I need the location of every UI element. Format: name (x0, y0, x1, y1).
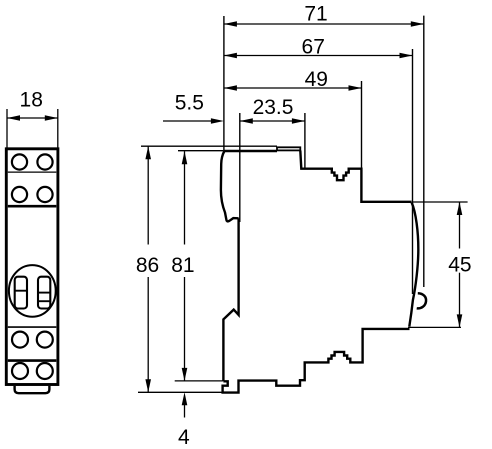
side view extension line front x224 (223, 16, 225, 150)
dim 81 extension bottom line (175, 380, 223, 382)
dim 45 extension top line (413, 201, 468, 203)
dim 5.5 leader and arrow (163, 118, 224, 124)
dim 49 line and arrows (224, 85, 362, 91)
DIN clip release loop (417, 293, 426, 308)
dim 81 line and arrows (182, 151, 188, 381)
terminal circle row1 right (37, 154, 52, 169)
rocker switch bezel circle (9, 265, 56, 317)
rocker switch left (15, 277, 27, 309)
dim 45 extension bottom line (408, 326, 461, 328)
dim 23.5 label (253, 96, 294, 119)
dim 18 label (20, 89, 43, 112)
side view left edge with DIN rail recess (223, 218, 238, 381)
terminal circle row2 right (37, 187, 52, 202)
dim 45 label (448, 254, 471, 277)
svg-text:81: 81 (171, 254, 194, 277)
side view top right profile with castellated notch (300, 150, 411, 201)
terminal circle row3 left (12, 332, 28, 348)
dim 81 extension top line (178, 150, 224, 152)
dim 81 label (171, 254, 194, 277)
front view divider thin 1 (8, 171, 57, 173)
svg-text:49: 49 (305, 68, 328, 91)
side view front clip (221, 151, 239, 221)
svg-text:45: 45 (448, 254, 471, 277)
side view extension line x412.5 for 67 (412, 49, 414, 294)
dim 4 arrow and stub (182, 392, 188, 417)
dim 23.5 line and arrows (240, 118, 305, 124)
dim 71 line and arrows (224, 21, 424, 27)
dim 45 line and arrows (457, 202, 463, 327)
dim 18 line and arrows (7, 115, 58, 121)
side view extension line x423.8 for 71 (423, 16, 425, 287)
svg-text:4: 4 (178, 426, 190, 449)
terminal circle row1 left (12, 154, 27, 169)
dim 49 label (305, 68, 328, 91)
dim 67 label (302, 35, 325, 58)
front view bottom tab (15, 386, 50, 393)
dim 86 extension top line (141, 145, 277, 147)
terminal circle row4 right (37, 363, 53, 379)
dim 71 label (304, 2, 327, 25)
svg-text:67: 67 (302, 35, 325, 58)
svg-text:5.5: 5.5 (175, 91, 204, 114)
side view raised strip (277, 147, 300, 150)
side view extension line x304.9 for 23.5 right (304, 113, 306, 169)
front view body outline (6, 149, 58, 385)
dim 86 label (136, 254, 159, 277)
front view divider thin 2 (8, 326, 57, 328)
rocker switch right (38, 277, 50, 309)
svg-text:23.5: 23.5 (253, 96, 294, 119)
svg-text:18: 18 (20, 89, 43, 112)
dim 5.5 label (175, 91, 204, 114)
dim 86 line and arrows (145, 146, 151, 392)
dim 86 extension bottom line (138, 391, 222, 393)
dim 4 label (178, 426, 190, 449)
front view divider thick 1 (8, 205, 57, 208)
svg-text:71: 71 (304, 2, 327, 25)
terminal circle row3 right (37, 332, 53, 348)
terminal circle row4 left (12, 363, 28, 379)
dim 67 line and arrows (224, 53, 413, 59)
svg-text:86: 86 (136, 254, 159, 277)
front view divider thick 2 (8, 359, 57, 362)
terminal circle row2 left (12, 187, 27, 202)
side view extension line x239.8 for 23.5 left (239, 113, 241, 222)
side view back curve (409, 202, 418, 326)
side view top strip second line thick part (224, 150, 277, 152)
side view bottom profile with castellated notch and foot (223, 329, 410, 393)
dim 18 extension lines (7, 109, 58, 148)
side view extension line x361.5 for 49 (361, 81, 363, 169)
